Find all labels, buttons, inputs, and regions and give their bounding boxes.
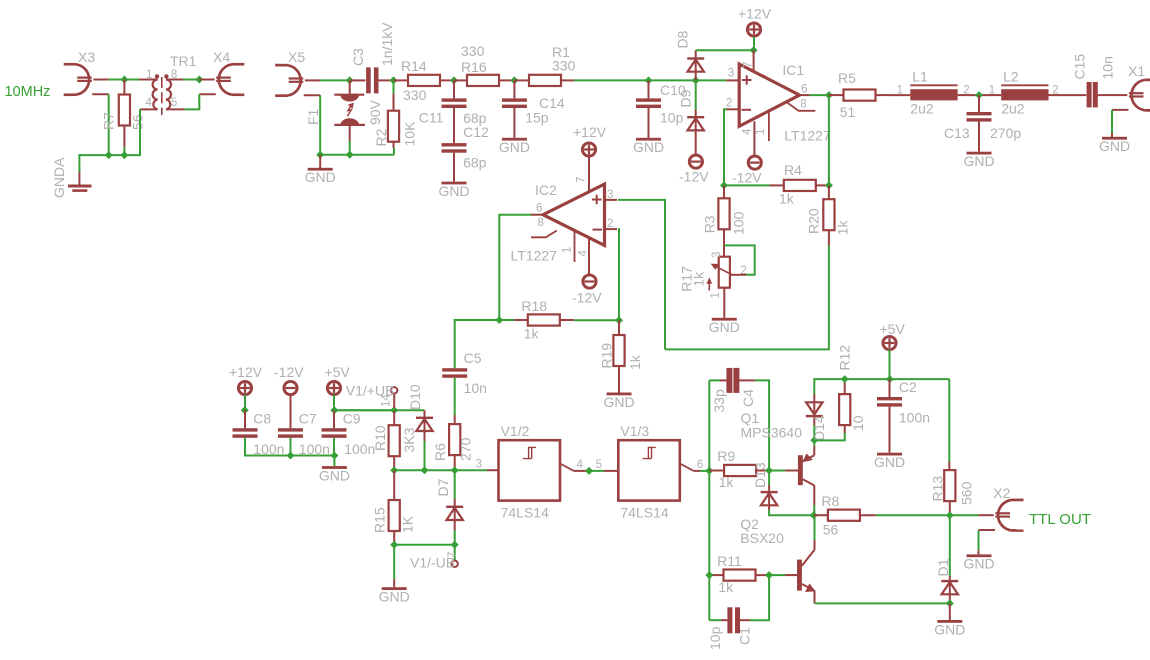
junction [946, 511, 954, 519]
svg-text:C15: C15 [1072, 54, 1088, 80]
resistor R20 [828, 185, 830, 199]
svg-text:+5V: +5V [880, 321, 906, 337]
wire [810, 94, 829, 96]
svg-text:6: 6 [697, 459, 703, 471]
junction [946, 599, 954, 607]
svg-text:1k: 1k [834, 220, 850, 236]
junction [287, 452, 295, 460]
svg-text:+12V: +12V [573, 124, 607, 140]
svg-text:BSX20: BSX20 [740, 530, 784, 546]
resistor R19 [618, 320, 620, 335]
svg-text:GND: GND [963, 153, 994, 169]
wire [889, 350, 891, 380]
wire [724, 109, 727, 185]
svg-text:10: 10 [850, 415, 866, 431]
svg-text:R19: R19 [599, 343, 615, 369]
resistor R7 [123, 80, 125, 95]
svg-text:D13: D13 [752, 462, 768, 488]
ground [648, 108, 650, 138]
svg-text:R7: R7 [101, 112, 117, 130]
resistor R15 [393, 470, 395, 500]
junction [810, 436, 818, 444]
junction [120, 151, 128, 159]
svg-text:C8: C8 [253, 411, 271, 427]
op-amp IC1 pin 6 stub [800, 94, 810, 96]
svg-text:2: 2 [726, 98, 732, 110]
resistor R11 [709, 574, 723, 576]
wire [618, 229, 619, 320]
wire [700, 470, 709, 472]
svg-text:GND: GND [709, 319, 740, 335]
svg-text:330: 330 [552, 58, 576, 74]
svg-text:R4: R4 [784, 162, 802, 178]
svg-text:R8: R8 [821, 493, 839, 509]
wire [333, 395, 335, 411]
svg-text:1: 1 [897, 85, 903, 97]
svg-text:R9: R9 [717, 448, 735, 464]
connector X1 [1132, 80, 1145, 110]
svg-text:X4: X4 [213, 49, 230, 65]
surge arrester F1 [349, 80, 351, 94]
junction [120, 76, 128, 84]
svg-text:GND: GND [934, 621, 965, 637]
capacitor C3 [350, 79, 366, 81]
capacitor C9 [333, 410, 335, 428]
wire [109, 79, 139, 81]
ground [453, 153, 455, 182]
svg-text:1k: 1k [719, 474, 735, 490]
svg-text:5: 5 [596, 459, 602, 471]
resistor R2 [393, 80, 395, 93]
junction [330, 452, 338, 460]
resistor R18 [499, 319, 514, 321]
wire [589, 470, 604, 472]
junction [495, 316, 503, 324]
capacitor C11 [453, 80, 455, 98]
svg-text:1k: 1k [779, 191, 795, 207]
junction [450, 76, 458, 84]
svg-text:330: 330 [403, 87, 427, 103]
svg-text:R16: R16 [461, 59, 487, 75]
junction [585, 467, 593, 475]
svg-text:-12V: -12V [572, 290, 602, 306]
ground [607, 393, 632, 396]
wire [1104, 94, 1112, 96]
wire [185, 94, 200, 109]
svg-text:10p: 10p [707, 626, 723, 650]
junction [975, 91, 983, 99]
junction [705, 467, 713, 475]
svg-text:1k: 1k [690, 271, 706, 287]
wire [1111, 110, 1113, 133]
wire [574, 79, 726, 81]
svg-text:2u2: 2u2 [1001, 101, 1025, 117]
ground [949, 603, 951, 620]
wire [813, 505, 815, 515]
svg-text:1: 1 [710, 292, 722, 298]
junction [825, 181, 833, 189]
svg-text:GND: GND [874, 454, 905, 470]
wire [394, 469, 487, 471]
wire [123, 147, 125, 155]
ground [978, 550, 980, 554]
diode D10 [394, 409, 424, 411]
pin 3 wire into V1/2 [487, 469, 499, 471]
svg-text:1K: 1K [399, 515, 415, 533]
svg-text:C12: C12 [463, 124, 489, 140]
resistor R9 [709, 470, 724, 472]
connector X5 [288, 65, 301, 95]
svg-text:74LS14: 74LS14 [620, 505, 668, 521]
wire [724, 184, 770, 186]
transistor Q2 BSX20 [785, 574, 797, 576]
svg-text:R12: R12 [836, 345, 852, 371]
svg-text:C3: C3 [350, 48, 366, 66]
svg-text:GND: GND [1099, 138, 1130, 154]
op-amp IC2 pin 8 stub [531, 231, 557, 238]
svg-text:4: 4 [577, 459, 584, 471]
supply -12V [689, 155, 702, 168]
capacitor C14 [513, 80, 515, 98]
junction [195, 76, 203, 84]
supply -12V [748, 156, 761, 169]
op-amp IC2 [543, 184, 605, 245]
svg-text:+12V: +12V [229, 364, 263, 380]
wire [730, 274, 746, 276]
diode D7 [454, 470, 456, 499]
svg-text:C11: C11 [419, 110, 444, 126]
resistor R13 [948, 379, 950, 462]
svg-text:7: 7 [447, 552, 459, 558]
svg-text:C4: C4 [740, 389, 756, 407]
svg-text:R6: R6 [432, 443, 448, 461]
pin V1/+UB [391, 387, 397, 393]
svg-text:X5: X5 [288, 49, 305, 65]
ground [1111, 133, 1113, 137]
svg-text:X3: X3 [78, 49, 95, 65]
svg-text:MPS3640: MPS3640 [741, 425, 803, 441]
svg-text:R10: R10 [372, 425, 388, 451]
svg-text:56: 56 [823, 522, 839, 538]
svg-text:3K3: 3K3 [401, 427, 417, 452]
supply +12V [747, 23, 760, 36]
svg-text:R13: R13 [930, 476, 946, 502]
wire [333, 438, 335, 456]
wire [665, 246, 829, 350]
svg-text:R2: R2 [373, 128, 389, 146]
ground [978, 122, 980, 152]
svg-text:3: 3 [728, 68, 734, 80]
svg-text:10K: 10K [402, 121, 418, 147]
capacitor C5 [455, 320, 500, 368]
svg-text:V1/3: V1/3 [620, 423, 649, 439]
svg-text:8: 8 [800, 98, 806, 110]
wire [813, 446, 815, 455]
wire [245, 438, 335, 456]
svg-text:74LS14: 74LS14 [501, 505, 549, 521]
wire [424, 441, 426, 470]
wire [814, 433, 844, 440]
op-amp IC2 pin 6 stub [531, 214, 543, 216]
capacitor C12 [453, 108, 455, 143]
wire Q2 emitter to D1 node [814, 590, 816, 603]
svg-text:R14: R14 [401, 58, 427, 74]
wire [319, 95, 321, 155]
svg-text:D14: D14 [811, 415, 827, 441]
svg-text:1k: 1k [524, 326, 540, 342]
resistor R6 [454, 415, 456, 424]
junction [105, 151, 113, 159]
ground [712, 318, 737, 321]
capacitor C13 [978, 95, 980, 112]
svg-text:+5V: +5V [325, 364, 351, 380]
wire [618, 200, 665, 350]
ground GNDA [78, 172, 80, 185]
svg-text:GNDA: GNDA [51, 157, 67, 198]
svg-text:560: 560 [958, 481, 974, 505]
wire [349, 141, 351, 155]
wire [1056, 94, 1082, 96]
wire [183, 79, 199, 81]
op-amp IC1 pin 8 stub [787, 102, 816, 111]
supply -12V [284, 381, 297, 394]
svg-text:330: 330 [461, 43, 485, 59]
wire [966, 94, 993, 96]
svg-text:1: 1 [146, 69, 152, 81]
svg-text:100n: 100n [899, 410, 930, 426]
svg-text:LT1227: LT1227 [784, 128, 831, 144]
svg-text:1n/1kV: 1n/1kV [379, 22, 395, 66]
svg-text:33p: 33p [711, 389, 727, 413]
svg-text:Q1: Q1 [741, 410, 760, 426]
svg-text:270p: 270p [990, 125, 1021, 141]
connector X3 [77, 64, 90, 94]
svg-text:100n: 100n [299, 441, 330, 457]
svg-text:GND: GND [603, 394, 634, 410]
junction [390, 76, 398, 84]
supply -12V [583, 275, 596, 288]
junction [692, 76, 700, 84]
svg-text:270: 270 [458, 437, 474, 461]
svg-text:X2: X2 [993, 485, 1010, 501]
wire [769, 574, 785, 576]
resistor R5 [829, 94, 844, 96]
svg-text:D1: D1 [935, 558, 951, 576]
svg-text:1: 1 [755, 129, 767, 135]
svg-text:R20: R20 [806, 208, 822, 234]
wire [320, 154, 394, 156]
wire [334, 409, 394, 411]
svg-text:GND: GND [633, 139, 664, 155]
wire [334, 409, 394, 411]
svg-text:L2: L2 [1003, 69, 1019, 85]
svg-text:3: 3 [476, 459, 482, 471]
resistor R8 [814, 514, 828, 516]
diode D13 [768, 471, 770, 486]
wire [768, 460, 770, 471]
junction [841, 375, 849, 383]
svg-text:51: 51 [840, 104, 856, 120]
svg-text:GND: GND [379, 589, 410, 605]
junction [615, 316, 623, 324]
resistor R3 [723, 185, 725, 198]
svg-text:R11: R11 [717, 553, 742, 569]
svg-text:GND: GND [499, 139, 530, 155]
svg-text:R18: R18 [521, 298, 547, 314]
ground [889, 407, 891, 453]
junction [390, 541, 398, 549]
wire [574, 319, 619, 321]
svg-text:3: 3 [711, 252, 723, 258]
wire [755, 380, 769, 460]
junction [705, 571, 713, 579]
supply +5V [883, 336, 896, 349]
svg-text:IC1: IC1 [782, 62, 804, 78]
capacitor C1 [709, 619, 721, 621]
junction [765, 571, 773, 579]
svg-text:90V: 90V [367, 99, 383, 125]
wire [750, 575, 769, 620]
svg-text:6: 6 [801, 83, 807, 95]
svg-text:GND: GND [963, 556, 994, 572]
svg-text:4: 4 [578, 250, 590, 257]
ground [393, 545, 395, 579]
capacitor C7 [290, 395, 292, 429]
svg-text:D10: D10 [407, 384, 423, 410]
svg-text:X1: X1 [1128, 63, 1145, 79]
svg-text:4: 4 [146, 97, 153, 109]
junction [765, 467, 773, 475]
svg-text:L1: L1 [912, 69, 928, 85]
resistor R4 [770, 184, 784, 186]
wire [454, 378, 456, 415]
diode D9 [695, 80, 697, 109]
svg-text:C7: C7 [299, 411, 317, 427]
svg-text:GND: GND [319, 467, 350, 483]
diode D8 [695, 50, 697, 57]
svg-text:56: 56 [130, 114, 146, 130]
resistor R1 [514, 79, 529, 81]
svg-text:D7: D7 [435, 478, 451, 496]
svg-text:LT1227: LT1227 [511, 248, 558, 264]
wire +5V rail [845, 378, 950, 380]
transistor Q1 MPS3640 [769, 470, 785, 472]
svg-text:10MHz: 10MHz [5, 84, 51, 100]
junction [390, 406, 398, 414]
svg-text:C1: C1 [737, 627, 753, 645]
junction [346, 151, 354, 159]
ground [333, 456, 335, 467]
potentiometer R17 [719, 257, 730, 288]
svg-text:100n: 100n [344, 441, 375, 457]
wire [888, 94, 910, 96]
capacitor C2 [889, 379, 891, 397]
svg-text:8: 8 [538, 217, 544, 229]
gate V1/3 74LS14 [604, 470, 618, 472]
svg-text:1k: 1k [718, 579, 734, 595]
wire [814, 540, 816, 550]
svg-text:F1: F1 [305, 108, 321, 125]
svg-text:2: 2 [607, 218, 613, 230]
svg-text:100: 100 [730, 211, 746, 235]
resistor R14 [394, 79, 409, 81]
svg-text:C13: C13 [944, 125, 970, 141]
wire [320, 79, 350, 81]
svg-text:IC2: IC2 [535, 182, 557, 198]
svg-text:4: 4 [741, 128, 753, 135]
svg-text:GND: GND [305, 169, 336, 185]
wire [696, 49, 754, 51]
pin V1/-UB [454, 545, 456, 561]
op-amp IC1 [739, 64, 799, 126]
wire [950, 514, 979, 516]
gate V1/2 74LS14 [499, 440, 561, 500]
junction [330, 406, 338, 414]
capacitor C15 [1082, 94, 1086, 96]
svg-text:68p: 68p [463, 155, 487, 171]
resistor R12 [844, 379, 846, 394]
svg-text:V1/2: V1/2 [501, 423, 530, 439]
wire [79, 154, 124, 156]
svg-text:GND: GND [438, 183, 469, 199]
wire [290, 438, 292, 456]
svg-text:-12V: -12V [274, 364, 304, 380]
junction [886, 375, 894, 383]
ground [513, 108, 515, 138]
svg-text:10n: 10n [464, 380, 487, 396]
svg-text:10p: 10p [660, 110, 684, 126]
wire [978, 530, 980, 550]
svg-text:8: 8 [171, 69, 177, 81]
wire [828, 95, 830, 185]
svg-text:-12V: -12V [732, 170, 762, 186]
junction [750, 46, 758, 54]
junction [510, 76, 518, 84]
capacitor C8 [244, 410, 246, 428]
ground [319, 155, 321, 168]
wire long vertical [708, 380, 710, 620]
supply +5V [327, 381, 340, 394]
junction [645, 76, 653, 84]
supply +12V [582, 143, 595, 156]
capacitor C4 [709, 379, 720, 381]
connector X4 [219, 64, 232, 94]
wire [124, 109, 140, 155]
svg-text:7: 7 [742, 62, 754, 68]
svg-text:3: 3 [607, 189, 613, 201]
wire [393, 148, 395, 155]
junction [825, 91, 833, 99]
junction [810, 511, 818, 519]
junction [241, 406, 249, 414]
wire [78, 154, 80, 172]
svg-text:R5: R5 [838, 70, 856, 86]
supply +12V [238, 381, 251, 394]
wire [244, 395, 246, 411]
bias rail junctions [390, 466, 398, 474]
junction [720, 181, 728, 189]
diode D1 [949, 515, 951, 576]
resistor R16 [454, 79, 467, 81]
svg-text:-12V: -12V [679, 169, 709, 185]
diode D14 [813, 425, 815, 440]
svg-text:7: 7 [575, 177, 587, 183]
svg-text:D8: D8 [675, 30, 691, 48]
wire [454, 530, 456, 545]
wire [108, 94, 110, 155]
capacitor C10 [648, 80, 650, 98]
svg-text:6: 6 [536, 202, 542, 214]
